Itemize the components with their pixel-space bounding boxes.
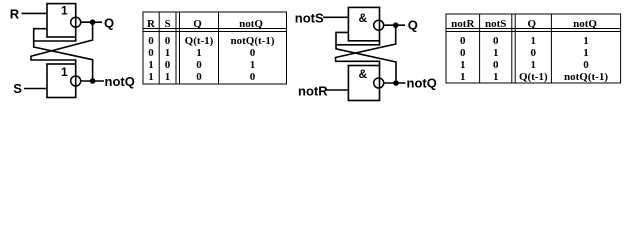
svg-text:1: 1: [531, 35, 537, 47]
svg-text:0: 0: [196, 59, 202, 71]
svg-text:1: 1: [460, 71, 466, 83]
svg-text:notQ: notQ: [239, 18, 263, 30]
svg-text:1: 1: [61, 3, 68, 17]
svg-text:0: 0: [250, 47, 256, 59]
svg-text:0: 0: [460, 35, 466, 47]
svg-text:0: 0: [583, 59, 589, 71]
svg-text:R: R: [147, 18, 156, 30]
svg-text:notQ: notQ: [407, 76, 437, 91]
svg-text:notQ: notQ: [105, 74, 135, 89]
svg-text:1: 1: [165, 71, 171, 83]
svg-text:notS: notS: [295, 10, 324, 25]
svg-text:Q(t-1): Q(t-1): [185, 35, 214, 47]
svg-text:0: 0: [531, 47, 537, 59]
svg-text:Q: Q: [104, 15, 114, 30]
svg-text:1: 1: [493, 47, 499, 59]
svg-text:0: 0: [196, 71, 202, 83]
svg-text:&: &: [359, 11, 368, 25]
svg-text:notQ: notQ: [573, 18, 597, 30]
svg-text:0: 0: [165, 59, 171, 71]
svg-text:0: 0: [460, 47, 466, 59]
svg-text:0: 0: [493, 35, 499, 47]
svg-text:0: 0: [165, 35, 171, 47]
svg-text:0: 0: [148, 35, 154, 47]
svg-text:Q(t-1): Q(t-1): [519, 71, 548, 83]
svg-text:notQ(t-1): notQ(t-1): [564, 71, 608, 83]
svg-text:Q: Q: [528, 18, 537, 30]
svg-text:Q: Q: [193, 18, 202, 30]
svg-text:notS: notS: [485, 18, 506, 30]
svg-text:1: 1: [165, 47, 171, 59]
svg-text:0: 0: [250, 71, 256, 83]
svg-text:1: 1: [148, 71, 154, 83]
svg-text:1: 1: [148, 59, 154, 71]
svg-text:1: 1: [460, 59, 466, 71]
svg-text:S: S: [164, 18, 170, 30]
svg-text:1: 1: [493, 71, 499, 83]
svg-text:0: 0: [493, 59, 499, 71]
svg-text:S: S: [13, 81, 22, 96]
svg-text:1: 1: [250, 59, 256, 71]
svg-text:1: 1: [583, 47, 589, 59]
svg-text:Q: Q: [408, 17, 418, 32]
svg-text:1: 1: [61, 65, 68, 79]
svg-text:0: 0: [148, 47, 154, 59]
svg-text:&: &: [359, 67, 368, 81]
svg-text:1: 1: [583, 35, 589, 47]
svg-text:notR: notR: [451, 18, 475, 30]
svg-text:notR: notR: [298, 83, 328, 98]
svg-text:1: 1: [531, 59, 537, 71]
svg-text:R: R: [10, 7, 20, 22]
svg-text:1: 1: [196, 47, 202, 59]
svg-text:notQ(t-1): notQ(t-1): [231, 35, 275, 47]
